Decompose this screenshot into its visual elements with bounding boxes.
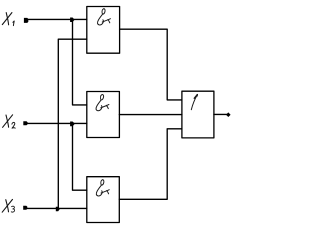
wire OR output [214, 113, 227, 115]
AND gate U1 box [87, 7, 120, 54]
AND gate U2 box [87, 92, 120, 138]
node X3 label [2, 199, 14, 212]
terminal output [226, 112, 231, 117]
junction on X1 wire [70, 18, 75, 23]
wire X2 to gate [26, 122, 87, 124]
junction on X2 wire [70, 122, 75, 127]
wire X2 branch down to AND3 [73, 123, 87, 190]
wire X1 to gate [26, 18, 87, 20]
AND gate U3 ampersand symbol [96, 180, 109, 196]
wire AND3 output to OR input 3 [119, 129, 182, 200]
OR gate U4 symbol 1 [191, 94, 198, 110]
wire X3 branch up to AND1 [58, 39, 87, 208]
node X2 label [3, 115, 16, 128]
AND gate U3 box [87, 177, 120, 223]
wire X1 branch down to AND2 [73, 19, 87, 105]
junction on X3 wire [56, 207, 60, 211]
terminal X1 [24, 18, 28, 23]
wire AND1 output to OR input 1 [120, 29, 182, 100]
terminal X3 [23, 206, 27, 210]
OR gate U4 box [182, 91, 214, 138]
wire X3 to gate [25, 207, 87, 209]
node X1 label [2, 13, 14, 26]
terminal X2 [23, 121, 27, 125]
AND gate U1 ampersand symbol [98, 9, 111, 25]
wire AND2 output to OR input 2 [119, 114, 181, 116]
AND gate U2 ampersand symbol [96, 95, 109, 111]
